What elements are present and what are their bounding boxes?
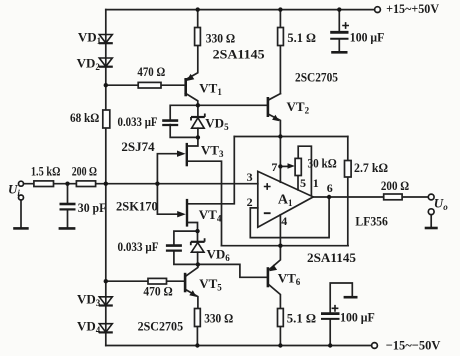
svg-text:LF356: LF356 — [355, 214, 388, 229]
svg-text:330 Ω: 330 Ω — [204, 310, 233, 325]
svg-text:2SC2705: 2SC2705 — [138, 319, 184, 334]
svg-text:+15~+50V: +15~+50V — [386, 1, 440, 16]
svg-text:VT5: VT5 — [199, 276, 222, 293]
svg-text:470 Ω: 470 Ω — [137, 64, 165, 79]
svg-text:5.1 Ω: 5.1 Ω — [287, 30, 316, 45]
svg-text:200 Ω: 200 Ω — [381, 178, 409, 193]
svg-text:VT6: VT6 — [278, 270, 301, 287]
svg-text:5.1 Ω: 5.1 Ω — [287, 310, 316, 325]
svg-text:100 μF: 100 μF — [350, 29, 385, 44]
svg-text:1: 1 — [313, 176, 319, 190]
svg-text:7: 7 — [271, 160, 277, 174]
svg-text:68 kΩ: 68 kΩ — [70, 110, 99, 125]
svg-text:100 μF: 100 μF — [340, 309, 375, 324]
svg-text:VT2: VT2 — [287, 99, 310, 116]
svg-text:30 kΩ: 30 kΩ — [308, 156, 337, 171]
svg-text:VD2: VD2 — [77, 56, 101, 73]
svg-text:2SA1145: 2SA1145 — [213, 47, 266, 62]
svg-text:2SK170: 2SK170 — [116, 198, 158, 213]
svg-text:VD6: VD6 — [207, 247, 231, 264]
svg-text:1.5 kΩ: 1.5 kΩ — [31, 164, 61, 179]
svg-text:470 Ω: 470 Ω — [143, 283, 172, 298]
svg-text:2.7 kΩ: 2.7 kΩ — [354, 160, 388, 175]
svg-text:0.033 μF: 0.033 μF — [118, 114, 158, 129]
svg-text:30 pF: 30 pF — [78, 200, 107, 215]
svg-text:−15~−50V: −15~−50V — [386, 338, 441, 353]
svg-text:VD5: VD5 — [205, 116, 229, 133]
svg-text:Uo: Uo — [434, 195, 448, 212]
svg-text:VT4: VT4 — [199, 207, 222, 224]
svg-text:6: 6 — [327, 181, 333, 195]
svg-text:200 Ω: 200 Ω — [72, 164, 97, 179]
svg-text:2SA1145: 2SA1145 — [307, 250, 357, 265]
svg-text:VT3: VT3 — [201, 143, 224, 160]
svg-text:0.033 μF: 0.033 μF — [118, 239, 159, 254]
svg-text:4: 4 — [281, 214, 287, 228]
svg-text:VD4: VD4 — [77, 319, 101, 336]
svg-text:2: 2 — [247, 195, 253, 209]
svg-text:5: 5 — [300, 176, 306, 190]
svg-text:2SC2705: 2SC2705 — [295, 70, 338, 85]
svg-text:3: 3 — [247, 170, 253, 184]
svg-text:VT1: VT1 — [199, 81, 222, 98]
svg-text:A1: A1 — [278, 192, 293, 208]
svg-text:VD1: VD1 — [78, 29, 102, 46]
svg-text:2SJ74: 2SJ74 — [121, 139, 155, 154]
svg-text:VD3: VD3 — [77, 292, 101, 309]
svg-text:330 Ω: 330 Ω — [206, 31, 236, 46]
